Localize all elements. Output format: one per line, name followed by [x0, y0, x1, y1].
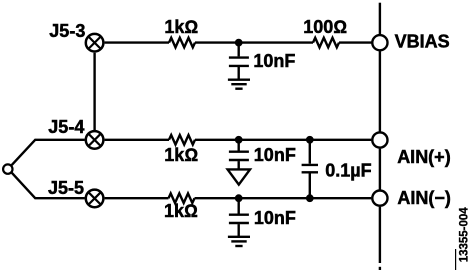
svg-text:10nF: 10nF	[254, 145, 296, 165]
svg-text:0.1µF: 0.1µF	[325, 161, 371, 181]
svg-text:1kΩ: 1kΩ	[164, 201, 198, 221]
svg-text:J5-3: J5-3	[49, 21, 85, 41]
svg-text:VBIAS: VBIAS	[395, 32, 450, 52]
svg-text:1kΩ: 1kΩ	[164, 17, 198, 37]
svg-text:AIN(−): AIN(−)	[397, 188, 451, 208]
svg-text:10nF: 10nF	[254, 208, 296, 228]
svg-text:10nF: 10nF	[253, 51, 295, 71]
svg-text:J5-4: J5-4	[48, 117, 84, 137]
svg-text:AIN(+): AIN(+)	[397, 147, 451, 167]
svg-text:1kΩ: 1kΩ	[164, 145, 198, 165]
svg-text:13355-004: 13355-004	[459, 207, 471, 263]
svg-text:J5-5: J5-5	[48, 178, 84, 198]
svg-text:100Ω: 100Ω	[303, 17, 347, 37]
